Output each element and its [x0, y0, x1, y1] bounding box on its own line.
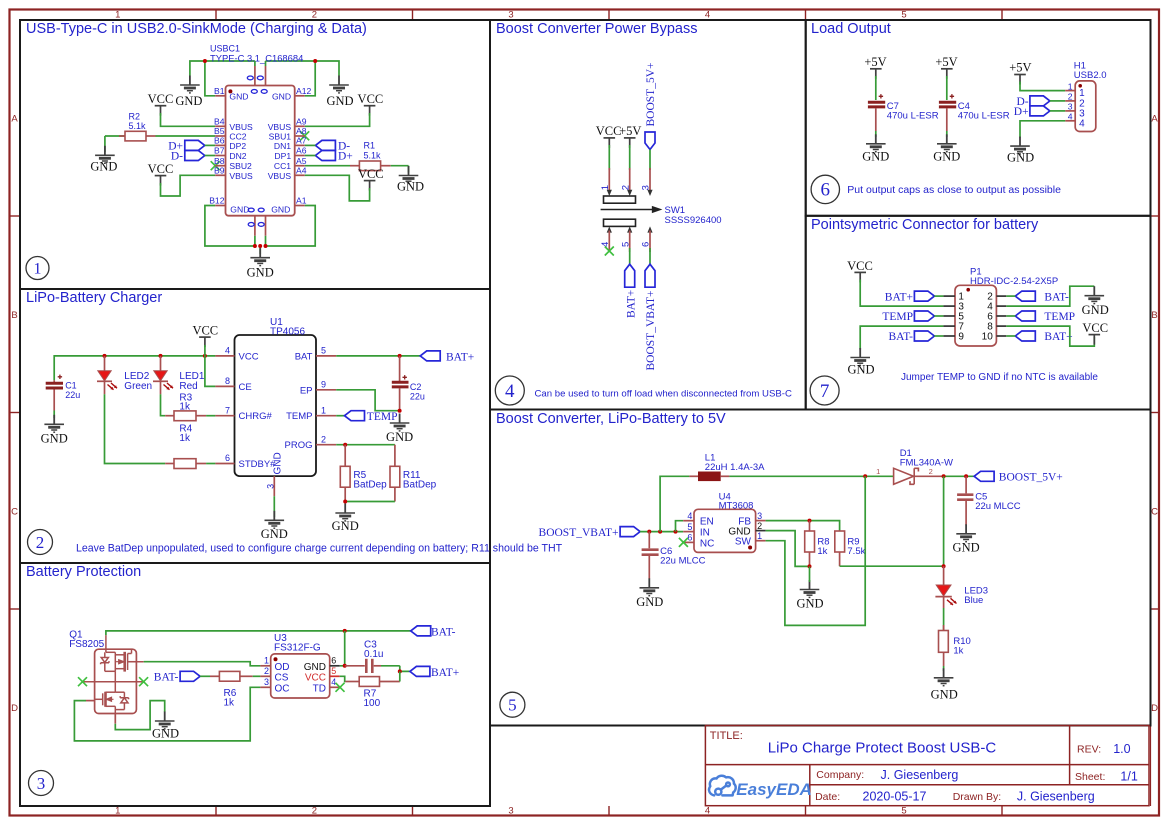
svg-text:4: 4: [705, 806, 710, 817]
wire BAT- to pin9: [934, 335, 943, 337]
switch pin arrows bottom: [607, 226, 653, 232]
wire R1 to GND: [408, 166, 410, 173]
svg-text:GND: GND: [953, 541, 980, 555]
svg-text:R1: R1: [364, 141, 376, 151]
lower mosfet: [95, 692, 129, 714]
frame tick column 3-4 top: [608, 10, 610, 21]
junction SW node: [863, 474, 867, 478]
wire VCC stem down: [204, 345, 206, 356]
svg-text:GND: GND: [230, 205, 249, 215]
U1 right pin numbers: [321, 346, 326, 445]
U3 right pin stub 6 GND: [330, 665, 340, 667]
svg-text:5: 5: [901, 10, 906, 21]
svg-text:D-: D-: [171, 151, 183, 163]
svg-text:VBUS: VBUS: [229, 171, 253, 181]
U4 left pin numbers: [687, 511, 692, 543]
U4 left pin stubs: [683, 521, 694, 543]
svg-text:4: 4: [1079, 118, 1085, 129]
svg-text:4: 4: [705, 10, 710, 21]
svg-text:4: 4: [505, 381, 515, 402]
svg-text:TP4056: TP4056: [270, 327, 305, 338]
net flag BAT- top: [411, 626, 456, 638]
ground bottom: [247, 248, 274, 279]
IC U3 FS312F-G body: [271, 654, 330, 698]
net flag BAT+ P1 pin10: [1015, 331, 1072, 343]
resistor R3: [165, 393, 215, 421]
svg-text:A: A: [1151, 114, 1158, 125]
net flag TEMP P1 pin5: [882, 311, 934, 323]
svg-text:TITLE:: TITLE:: [710, 730, 743, 742]
USBC1 shell ellipses bottom outside: [248, 223, 264, 227]
svg-text:3: 3: [265, 484, 275, 489]
svg-text:+5V: +5V: [935, 55, 957, 69]
svg-text:GND: GND: [152, 726, 179, 740]
svg-text:+5V: +5V: [1009, 61, 1031, 75]
svg-text:470u L-ESR: 470u L-ESR: [887, 110, 939, 121]
svg-text:9: 9: [321, 379, 326, 389]
wire FB net: [766, 521, 840, 531]
frame tick column 2-3 top: [412, 10, 414, 21]
svg-text:Boost Converter Power Bypass: Boost Converter Power Bypass: [496, 21, 697, 37]
svg-text:B9: B9: [214, 166, 225, 176]
wire PROG to resistors: [336, 444, 395, 446]
wire R11 bottom to R5 bottom: [345, 501, 395, 503]
junction BAT C2: [398, 354, 402, 358]
svg-text:1k: 1k: [953, 646, 963, 657]
wire pin4 to GND right: [1006, 286, 1094, 306]
svg-text:GND: GND: [847, 363, 874, 377]
svg-text:B: B: [1151, 310, 1157, 321]
net flag BOOST_5V+ output: [974, 471, 1063, 483]
svg-text:GND: GND: [862, 149, 889, 163]
wire gnd stem bottom: [259, 246, 261, 254]
svg-text:3: 3: [757, 511, 762, 521]
svg-text:D+: D+: [1014, 106, 1029, 118]
wire TEMP to flag: [336, 415, 344, 417]
svg-text:B12: B12: [209, 196, 225, 206]
svg-text:1/1: 1/1: [1120, 770, 1137, 784]
transistor Q1 FS8205: [69, 630, 144, 724]
connector USBC1 body: [226, 86, 295, 216]
junction top left: [203, 59, 207, 63]
ground R2: [90, 146, 117, 174]
ground H1: [1007, 137, 1034, 165]
ground C1: [41, 415, 68, 446]
svg-text:22u MLCC: 22u MLCC: [660, 556, 706, 567]
svg-text:GND: GND: [272, 91, 291, 101]
U1 bottom pin stub: [273, 476, 275, 496]
junction LED3 top: [942, 564, 946, 568]
svg-text:6: 6: [331, 656, 336, 666]
wire VBUS top right: [266, 61, 340, 76]
junction top right: [313, 59, 317, 63]
svg-text:CC1: CC1: [274, 161, 291, 171]
capacitor C3: [345, 640, 400, 674]
svg-text:BAT+: BAT+: [885, 291, 913, 303]
svg-text:VBUS: VBUS: [268, 171, 292, 181]
svg-text:GND: GND: [326, 94, 353, 108]
U3 left pin names: [275, 662, 290, 695]
wire L1 to D1: [729, 475, 893, 477]
svg-text:BAT+: BAT+: [431, 667, 459, 679]
+5V symbol C7: [864, 55, 886, 79]
no-connect SW1 pin4: [605, 247, 614, 256]
svg-text:REV:: REV:: [1077, 744, 1101, 756]
capacitor C6: [642, 532, 706, 579]
U3 left pin numbers: [264, 656, 269, 688]
ground R5: [332, 504, 359, 534]
section box 4 Boost Converter Power Bypass: [490, 20, 806, 410]
wire VCC to pin1: [608, 145, 610, 170]
svg-text:2: 2: [757, 521, 762, 531]
svg-text:1: 1: [264, 656, 269, 666]
svg-text:3: 3: [508, 10, 513, 21]
net flag D+ H1: [1014, 106, 1050, 118]
section box 1 USB-Type-C: [20, 20, 490, 289]
svg-text:HDR-IDC-2.54-2X5P: HDR-IDC-2.54-2X5P: [970, 276, 1058, 287]
svg-text:5: 5: [620, 242, 631, 247]
wire pin6 to BOOST_VBAT+ flag: [649, 248, 651, 264]
frame tick column 5-end bottom: [1001, 806, 1003, 816]
wire bottom pins to gnd bus: [254, 236, 256, 246]
svg-text:PROG: PROG: [285, 440, 313, 451]
wire BAT to flag: [336, 355, 420, 357]
resistor R4: [165, 424, 215, 469]
svg-text:DN2: DN2: [229, 151, 246, 161]
svg-text:VCC: VCC: [596, 124, 622, 138]
svg-text:A: A: [11, 114, 18, 125]
svg-text:3: 3: [37, 774, 46, 793]
wire D+ to B6: [205, 144, 215, 146]
svg-text:Boost Converter, LiPo-Battery: Boost Converter, LiPo-Battery to 5V: [496, 411, 726, 427]
wire VCC to B4: [161, 113, 216, 126]
P1 left pin stubs: [943, 296, 955, 336]
wire LED3 to R10: [943, 608, 945, 631]
svg-text:USB-Type-C in USB2.0-SinkMode: USB-Type-C in USB2.0-SinkMode (Charging …: [26, 21, 367, 37]
svg-text:4: 4: [1068, 112, 1073, 122]
gate crossover line: [83, 681, 144, 683]
wire EP to C2 bottom: [336, 390, 399, 411]
ground Q1: [152, 712, 179, 741]
net flag BOOST_VBAT+ vertical: [645, 264, 657, 370]
svg-text:B4: B4: [214, 117, 225, 127]
wire VCC pin to R7: [340, 676, 346, 681]
svg-text:GND: GND: [90, 160, 117, 174]
svg-text:FS312F-G: FS312F-G: [274, 643, 321, 654]
svg-text:3: 3: [264, 677, 269, 687]
U1 right pin names: [285, 351, 313, 451]
wire C3 to BAT+: [400, 666, 410, 672]
ground P1 pin7: [847, 348, 874, 377]
switch SW1 pins 1-3: [609, 168, 650, 192]
frame tick column 5-end top: [1001, 10, 1003, 21]
U1 left pin numbers: [225, 346, 230, 464]
svg-text:GND: GND: [1082, 303, 1109, 317]
ground U1: [261, 511, 288, 541]
resistor R10: [939, 625, 971, 666]
svg-text:Leave BatDep unpopulated, used: Leave BatDep unpopulated, used to config…: [76, 543, 563, 555]
wire VCC to pin3: [860, 280, 943, 307]
wire D1 out to flag: [944, 475, 975, 477]
svg-text:Red: Red: [179, 381, 197, 392]
svg-text:2: 2: [929, 467, 933, 476]
svg-text:Green: Green: [124, 381, 152, 392]
svg-text:1: 1: [757, 531, 762, 541]
svg-text:6: 6: [821, 180, 831, 201]
ground top right: [326, 76, 353, 108]
wire A12 to GND net: [305, 61, 316, 96]
svg-text:C: C: [11, 507, 18, 518]
LED2: [97, 356, 152, 394]
svg-text:BOOST_5V+: BOOST_5V+: [999, 472, 1063, 484]
svg-text:Company:: Company:: [816, 769, 864, 781]
wire BAT- top rail: [106, 631, 411, 635]
svg-text:Drawn By:: Drawn By:: [953, 791, 1001, 803]
svg-text:TEMP: TEMP: [882, 311, 913, 323]
diode D1: [894, 468, 944, 484]
svg-text:BAT-: BAT-: [889, 331, 914, 343]
svg-text:5: 5: [321, 346, 326, 356]
svg-text:VCC: VCC: [239, 351, 259, 362]
net flag BAT+ P1 pin1: [885, 291, 935, 303]
svg-text:7.5k: 7.5k: [847, 546, 865, 557]
svg-text:5.1k: 5.1k: [364, 151, 382, 161]
wire pin8 to VCC right: [1006, 326, 1094, 346]
no-connect A8: [300, 131, 309, 140]
IC U1 TP4056 body: [235, 335, 317, 476]
U1 left pin stubs: [215, 356, 234, 464]
svg-text:GND: GND: [332, 519, 359, 533]
svg-text:IN: IN: [700, 528, 710, 539]
section box 3 Battery Protection: [20, 563, 490, 806]
svg-text:6: 6: [641, 242, 652, 247]
svg-text:SBU2: SBU2: [229, 161, 252, 171]
VCC symbol right: [1082, 321, 1108, 344]
svg-text:B7: B7: [214, 146, 225, 156]
svg-text:VCC: VCC: [305, 672, 326, 683]
H1 pin stubs: [1065, 91, 1075, 121]
upper mosfet body diode (zener): [104, 652, 106, 657]
VCC symbol top left: [148, 92, 174, 116]
junction C2 bottom: [398, 409, 402, 413]
circled number 3: [29, 771, 54, 796]
USBC1 shell ellipses top inside: [251, 90, 267, 94]
svg-text:VCC: VCC: [1082, 321, 1108, 335]
U4 left pin names: [700, 517, 714, 550]
wire H1 pin4 to GND: [1020, 121, 1065, 138]
svg-text:CS: CS: [275, 672, 289, 683]
wire pin5 to BAT+ flag: [629, 248, 631, 264]
svg-text:BAT+: BAT+: [446, 351, 474, 363]
wire pin10 to BAT+: [1006, 335, 1015, 337]
connector H1 body: [1075, 81, 1096, 132]
H1 inside pin numbers: [1079, 88, 1085, 129]
USBC1 pin shell top right: [265, 61, 267, 66]
svg-text:Blue: Blue: [964, 595, 983, 606]
svg-text:BAT: BAT: [295, 351, 313, 362]
svg-text:GND: GND: [271, 205, 290, 215]
no-connect U3 TD: [336, 683, 345, 692]
LED1: [153, 356, 205, 394]
svg-text:22u: 22u: [410, 391, 425, 401]
net flag D+ right: [315, 151, 352, 163]
svg-text:OC: OC: [275, 683, 290, 694]
P1 pin1 marker: [966, 288, 970, 292]
wire EN riser: [676, 521, 684, 532]
svg-text:FS8205: FS8205: [69, 639, 104, 650]
IC U4 MT3608 body: [694, 509, 756, 552]
no-connect B8: [211, 161, 220, 170]
frame tick column 1-2 top: [215, 10, 217, 21]
svg-text:10: 10: [982, 332, 994, 343]
svg-text:4: 4: [225, 346, 230, 356]
frame tick column 4-5 top: [805, 10, 807, 21]
svg-text:Date:: Date:: [815, 791, 840, 803]
svg-text:22uH 1.4A-3A: 22uH 1.4A-3A: [705, 462, 765, 473]
center link upper-lower: [114, 671, 116, 692]
section box 5 Boost Converter: [490, 410, 1151, 726]
svg-text:3: 3: [508, 806, 513, 817]
ground R8: [796, 580, 823, 611]
svg-text:BatDep: BatDep: [353, 479, 387, 490]
wire BAT+ to pin1: [934, 295, 943, 297]
svg-text:BAT+: BAT+: [1044, 331, 1072, 343]
wire flag to pin3: [649, 150, 651, 171]
wire output down to LED3: [943, 476, 945, 566]
svg-text:A12: A12: [296, 86, 312, 96]
svg-text:2: 2: [321, 434, 326, 444]
lower mosfet arrow: [106, 697, 114, 701]
USBC1 right pin numbers: [296, 86, 312, 206]
svg-text:GND: GND: [931, 688, 958, 702]
svg-text:B1: B1: [214, 86, 225, 96]
svg-text:D+: D+: [338, 151, 353, 163]
wire +5V to H1 pin1: [1020, 82, 1065, 91]
svg-text:TD: TD: [313, 683, 326, 694]
+5V symbol H1: [1009, 61, 1031, 85]
svg-text:3: 3: [641, 185, 652, 190]
svg-text:J. Giesenberg: J. Giesenberg: [881, 768, 959, 782]
svg-text:2: 2: [264, 666, 269, 676]
wire TEMP to pin5: [934, 315, 943, 317]
svg-text:5.1k: 5.1k: [129, 121, 147, 131]
net flag BAT- P1 pin9: [889, 331, 935, 343]
upper mosfet drain out: [128, 661, 144, 663]
svg-text:GND: GND: [273, 452, 284, 474]
frame tick row A-B right: [1151, 215, 1160, 217]
ground C5: [953, 524, 980, 554]
svg-text:VCC: VCC: [192, 324, 218, 338]
svg-text:GND: GND: [229, 91, 248, 101]
U3 left pin stubs: [260, 666, 270, 688]
junction C6: [647, 530, 651, 534]
P1 left pin numbers: [958, 292, 964, 343]
svg-text:1: 1: [115, 10, 120, 21]
switch SW1 top plate: [604, 196, 636, 203]
svg-text:STDBY#: STDBY#: [239, 459, 277, 470]
junction L1 branch: [658, 530, 662, 534]
svg-text:EN: EN: [700, 517, 714, 528]
svg-text:EasyEDA: EasyEDA: [736, 780, 812, 799]
svg-text:1: 1: [1068, 81, 1073, 91]
svg-text:6: 6: [687, 533, 692, 543]
svg-text:GND: GND: [41, 432, 68, 446]
net flag BAT+: [420, 351, 474, 363]
net flag D+ left: [168, 140, 205, 152]
svg-text:GND: GND: [247, 266, 274, 280]
USBC1 shell ellipses bottom inside: [248, 208, 264, 212]
U4 right pin stub GND: [756, 530, 766, 532]
svg-text:B: B: [11, 310, 17, 321]
H1 outside pin numbers: [1068, 81, 1073, 121]
frame tick row B-C left: [10, 412, 20, 414]
svg-text:BOOST_VBAT+: BOOST_VBAT+: [645, 291, 657, 371]
junction bottom 1: [253, 244, 257, 248]
svg-text:BatDep: BatDep: [403, 479, 437, 490]
svg-text:7: 7: [225, 405, 230, 415]
svg-text:VCC: VCC: [358, 167, 384, 181]
wire C1 to GND: [53, 411, 55, 419]
svg-text:1: 1: [321, 405, 326, 415]
wire R10 to GND: [943, 666, 945, 671]
VCC symbol P1 pin3: [847, 259, 873, 283]
frame tick row C-D left: [10, 608, 20, 610]
frame tick column 1-2 bottom: [215, 806, 217, 816]
svg-text:B6: B6: [214, 136, 225, 146]
wire A7 to D-: [305, 144, 316, 146]
P1 right pin stubs: [996, 296, 1006, 336]
svg-text:VCC: VCC: [148, 162, 174, 176]
H1 pin1 marker: [1078, 84, 1082, 88]
net flag TEMP P1 pin6: [1015, 311, 1075, 323]
USBC1 left pin names: [229, 91, 253, 214]
svg-text:FML340A-W: FML340A-W: [900, 458, 953, 469]
VCC symbol A4: [358, 167, 384, 191]
svg-text:GND: GND: [796, 597, 823, 611]
junction VCC rail LED1: [159, 354, 163, 358]
wire OC loop to Q1 gate2: [74, 687, 260, 741]
junction U3 pin6: [343, 664, 347, 668]
svg-text:LiPo-Battery Charger: LiPo-Battery Charger: [26, 290, 162, 306]
circled number 5: [500, 692, 525, 717]
svg-text:D: D: [1151, 703, 1158, 714]
ground R1: [397, 166, 424, 194]
no-connect Q1 left: [78, 677, 87, 686]
wire pin6 to TEMP: [1006, 315, 1015, 317]
frame tick row B-C right: [1151, 412, 1160, 414]
svg-text:BAT-: BAT-: [154, 672, 179, 684]
svg-text:VCC: VCC: [847, 259, 873, 273]
svg-text:BAT+: BAT+: [626, 290, 638, 318]
no-connect U4 NC: [679, 538, 688, 547]
U4 right pin stub FB: [756, 520, 766, 522]
resistor R8: [805, 521, 830, 567]
capacitor C2: [392, 356, 425, 411]
svg-text:J. Giesenberg: J. Giesenberg: [1017, 790, 1095, 804]
svg-text:A5: A5: [296, 156, 307, 166]
svg-text:100: 100: [364, 698, 381, 709]
+5V symbol SW1 pin2: [619, 124, 641, 148]
wire C4 to GND: [946, 131, 948, 137]
svg-text:MT3608: MT3608: [719, 501, 754, 512]
wire LED1 to R3: [161, 394, 166, 415]
svg-text:USB2.0: USB2.0: [1074, 70, 1107, 81]
U3 right pin stub 4 TD: [330, 686, 340, 688]
capacitor C4: [939, 76, 1010, 131]
wire B1 to GND net: [205, 61, 215, 96]
frame tick column 4-5 bottom: [805, 806, 807, 816]
svg-text:GND: GND: [175, 94, 202, 108]
